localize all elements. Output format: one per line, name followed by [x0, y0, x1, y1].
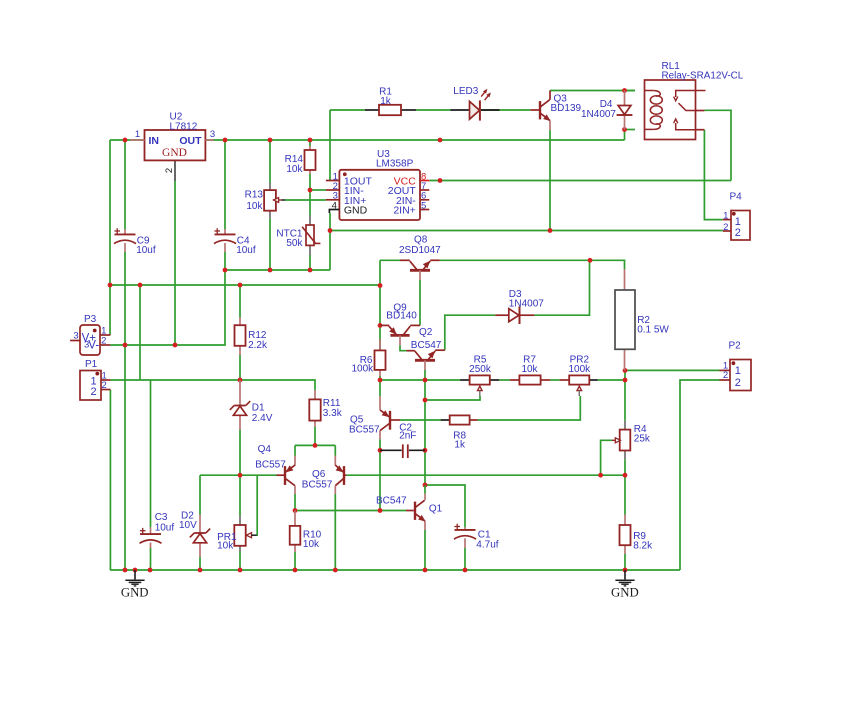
wire Q5 collector to C2 node [379, 439, 381, 450]
wire R14 top [309, 140, 311, 146]
node Q2 collector [423, 378, 428, 383]
wire sense line y270 [225, 269, 330, 271]
svg-text:Q8: Q8 [414, 234, 428, 245]
svg-text:10k: 10k [286, 164, 303, 175]
wire PR1 wiper link [256, 475, 258, 535]
wire Q1 collector link [425, 485, 465, 527]
wire long line U3 GND to P4 pin2 [330, 230, 723, 232]
node Q3 emitter line [548, 228, 553, 233]
capacitor C3 [140, 512, 175, 548]
svg-text:10k: 10k [303, 539, 320, 550]
node C4 bottom [223, 268, 228, 273]
wire R13 top [269, 140, 271, 183]
svg-text:10uf: 10uf [136, 245, 156, 256]
wire relay common to VCC line [704, 110, 731, 180]
svg-text:5: 5 [421, 200, 426, 211]
node gnd C3 [148, 568, 153, 573]
transistor Q3 BD139 [530, 91, 581, 131]
svg-text:R13: R13 [245, 190, 264, 201]
node gnd R10 [293, 568, 298, 573]
wire main line y380 left [380, 379, 460, 381]
node gnd Q1 [423, 568, 428, 573]
svg-text:10k: 10k [246, 201, 263, 212]
resistor R14 [285, 146, 316, 175]
svg-text:2IN+: 2IN+ [393, 205, 415, 217]
node R11 emitters [313, 443, 318, 448]
svg-text:BC557: BC557 [349, 425, 380, 436]
resistor R10 [290, 511, 322, 553]
svg-text:2: 2 [101, 336, 106, 347]
svg-text:50k: 50k [286, 238, 303, 249]
resistor R8 [441, 415, 478, 450]
zener diode D2 [179, 510, 210, 557]
wire D3 cathode to Q8 line [534, 260, 589, 315]
node NTC1 bottom [308, 268, 313, 273]
wire R9 bottom [624, 554, 626, 570]
svg-text:OUT: OUT [179, 135, 202, 147]
wire Q4 Q6 emitter rail [295, 444, 335, 446]
thermistor NTC1 [276, 216, 320, 256]
node Q8 base [378, 283, 383, 288]
resistor R7 [510, 354, 550, 384]
relay contact stub pin [696, 110, 705, 112]
node rail-C9 [123, 138, 128, 143]
node R2 bottom [623, 368, 628, 373]
svg-text:2: 2 [723, 370, 728, 381]
svg-text:GND: GND [162, 147, 187, 159]
svg-text:BC547: BC547 [376, 495, 407, 506]
svg-text:3: 3 [210, 129, 215, 140]
wire base line y285 [110, 284, 380, 286]
wire R4 wiper link [601, 440, 612, 475]
wire 1IN- to R14 node [310, 189, 326, 191]
node U2gnd-P3 [173, 343, 178, 348]
wire C4 bottom to GND-sense line [224, 252, 226, 270]
svg-text:3: 3 [73, 331, 78, 342]
svg-text:2: 2 [164, 168, 175, 173]
voltage regulator U2 [130, 112, 215, 174]
transistor Q2 BC547 [406, 327, 444, 370]
svg-text:2SD1047: 2SD1047 [399, 245, 441, 256]
node Q1 collector [423, 483, 428, 488]
wire R4 column top [624, 380, 626, 421]
svg-text:LM358P: LM358P [376, 159, 414, 170]
svg-text:25k: 25k [634, 434, 651, 445]
svg-text:1k: 1k [454, 440, 466, 451]
wire relay NO contact down to P4 pin1 [704, 130, 722, 220]
wire Q1 emitter to GND [424, 530, 426, 570]
wire C4 column to P3 pin2 line [110, 270, 225, 345]
svg-text:2.2k: 2.2k [248, 340, 268, 351]
wire R11 top from P1 line [240, 380, 315, 390]
wire zener D2 top [199, 475, 201, 514]
wire C4 column top [224, 140, 226, 229]
wire Q3 collector line y90.5 [550, 90, 635, 92]
node R4 top [623, 378, 628, 383]
node R13 bottom [268, 268, 273, 273]
wire Q4 collector to R10 [294, 494, 296, 511]
node R4-R9 [623, 473, 628, 478]
wire P3 pin1 riser [109, 140, 111, 335]
svg-text:P2: P2 [729, 341, 742, 352]
node R12-D1 [238, 378, 243, 383]
svg-text:100k: 100k [568, 364, 591, 375]
resistor PR1 trimmer [217, 516, 257, 552]
svg-text:2nF: 2nF [399, 431, 416, 442]
wire op-amp out column x330 [329, 110, 331, 181]
svg-text:IN: IN [149, 135, 160, 147]
svg-text:Q1: Q1 [429, 504, 443, 515]
svg-text:V-: V- [88, 339, 99, 351]
capacitor C9 [114, 228, 156, 256]
resistor R2 0.1 5W [615, 269, 669, 370]
resistor R11 [309, 390, 342, 427]
svg-text:1k: 1k [380, 96, 392, 107]
wire Q8 base col to Q9 [379, 286, 381, 326]
wire GND line bottom [110, 569, 680, 571]
capacitor C2 [380, 423, 425, 458]
node D4 anode [622, 88, 627, 93]
wire C1 bottom [464, 548, 466, 570]
svg-text:2: 2 [735, 227, 741, 239]
node gnd PR1 [238, 568, 243, 573]
wire PR1 top [239, 475, 241, 516]
wire R9 top [624, 475, 626, 514]
connector P3 [70, 314, 110, 355]
node R14-NTC1 [308, 188, 313, 193]
transistor Q8 2SD1047 [399, 234, 441, 280]
wire PR1 bottom [239, 552, 241, 571]
connector P1 [80, 359, 110, 400]
node left riser [108, 283, 113, 288]
node Q9-R6 [378, 323, 383, 328]
svg-text:Relay-SRA12V-CL: Relay-SRA12V-CL [662, 71, 744, 82]
transistor Q4 BC557 [255, 444, 295, 494]
node D4 cathode [622, 127, 627, 132]
svg-text:1N4007: 1N4007 [581, 109, 616, 120]
wire C9 column top [124, 140, 126, 229]
node R12 top [238, 283, 243, 288]
ground symbol right [611, 570, 639, 599]
wire P1 pin1 line [110, 379, 240, 381]
svg-text:250k: 250k [469, 364, 492, 375]
node rail-C4 [223, 138, 228, 143]
wire C9 column bottom [124, 252, 126, 570]
node gnd Q6 [333, 568, 338, 573]
node rail-R13 [268, 138, 273, 143]
wire Q9 node to R6 [379, 325, 381, 339]
svg-text:10k: 10k [217, 540, 234, 551]
resistor R9 [620, 515, 654, 555]
node Q4-R10 [293, 508, 298, 513]
wire P2 pin2 riser [680, 380, 720, 570]
svg-text:1: 1 [735, 216, 741, 228]
svg-text:BD140: BD140 [386, 310, 417, 321]
node R5 wiper [423, 398, 428, 403]
wire P1 pin2 drop [109, 390, 111, 571]
wire y475 line left [200, 474, 278, 476]
wire D3 line from Q2 emitter [445, 315, 496, 350]
node gnd C1 [463, 568, 468, 573]
wire R11 bottom [314, 427, 316, 445]
node D3-Q8 [588, 258, 593, 263]
svg-text:LED3: LED3 [453, 86, 478, 97]
wire R8 to PR2 wiper [478, 396, 581, 420]
svg-text:1N4007: 1N4007 [509, 299, 544, 310]
wire Q2 collector column [424, 370, 426, 485]
transistor Q1 BC547 [376, 485, 443, 530]
wire R5 wiper line y400 [425, 396, 480, 400]
svg-text:10uf: 10uf [236, 245, 256, 256]
wire D4 bottom link to coil [625, 129, 636, 131]
svg-text:1: 1 [135, 129, 140, 140]
wire R12 top [239, 285, 241, 318]
wire +12V rail top [110, 139, 625, 141]
wire zener D2 bottom [199, 557, 201, 570]
node Q1 base [378, 508, 383, 513]
wire 1IN+ to R13 wiper [285, 199, 326, 201]
connector P2 [720, 341, 752, 391]
svg-text:GND: GND [611, 585, 639, 599]
svg-text:10V: 10V [179, 520, 197, 531]
wire R6 top lead link [379, 339, 381, 350]
resistor R12 [235, 318, 269, 356]
svg-text:BC557: BC557 [255, 459, 286, 470]
wire Q3 emitter column x550 [549, 130, 551, 230]
svg-text:BD139: BD139 [551, 103, 582, 114]
wire R13 bottom [269, 218, 271, 270]
node R6 bottom [378, 378, 383, 383]
wire D4 top link [625, 90, 636, 92]
LED LED3 [450, 86, 499, 121]
transistor Q9 BD140 [380, 302, 420, 345]
wire NTC1 bottom [309, 255, 311, 270]
svg-text:0.1 5W: 0.1 5W [637, 325, 669, 336]
wire R10 bottom to GND [294, 552, 296, 570]
svg-text:P4: P4 [730, 191, 743, 202]
wire D1 bottom to y475 node [239, 430, 241, 475]
svg-text:BC547: BC547 [411, 340, 442, 351]
wire R12 bottom [239, 355, 241, 380]
node gnd D2 [198, 568, 203, 573]
diode D4 1N4007 [581, 91, 632, 130]
svg-text:GND: GND [121, 585, 149, 599]
wire R14 bottom to pin2 node [309, 174, 311, 190]
svg-text:4.7uf: 4.7uf [476, 539, 498, 550]
transistor Q6 BC557 [302, 445, 347, 494]
connector P4 [723, 191, 750, 240]
wire Q8 center to Q9 right leg [419, 280, 421, 325]
node rail-R14 [308, 138, 313, 143]
resistor R13 trimmer [245, 183, 285, 219]
relay RL1 [645, 61, 744, 140]
svg-text:Q2: Q2 [419, 327, 433, 338]
capacitor C1 [454, 524, 499, 551]
wire x140 drop [139, 285, 141, 380]
wire Q1 base line [295, 510, 406, 512]
op-amp U3 LM358P [326, 149, 429, 220]
node rail-VCC riser [438, 138, 443, 143]
svg-text:L7812: L7812 [170, 121, 198, 132]
wire U3 pin4 column x330 [329, 213, 331, 270]
wire R6 bottom to main line [379, 376, 381, 380]
node D1-PR1 [238, 473, 243, 478]
svg-text:GND: GND [344, 205, 368, 217]
resistor R1 [365, 86, 416, 115]
wire R1 LED row y110 [330, 109, 365, 111]
svg-text:C3: C3 [155, 512, 168, 523]
svg-text:10uf: 10uf [155, 523, 175, 534]
wire LED to Q3 base [416, 109, 450, 111]
svg-text:2.4V: 2.4V [252, 413, 273, 424]
wire Q5 base to R8 [400, 419, 441, 421]
svg-text:1: 1 [723, 211, 728, 222]
node gnd C9 [123, 568, 128, 573]
wire R4 bottom [624, 459, 626, 475]
wire C3 column bottom [150, 548, 152, 570]
wire Q8 left corner [380, 260, 400, 285]
resistor R4 trimmer 25k [612, 421, 651, 460]
wire VCC pin8 line [429, 180, 731, 182]
resistor R6 [352, 339, 386, 376]
svg-text:8.2k: 8.2k [633, 541, 653, 552]
node gnd symbol left [133, 568, 138, 573]
svg-text:P1: P1 [85, 359, 98, 370]
wire NTC1 top [309, 190, 311, 216]
node C9-P3 [123, 343, 128, 348]
svg-text:BC557: BC557 [302, 479, 333, 490]
node VCC pin8 [438, 178, 443, 183]
svg-text:2: 2 [91, 386, 97, 398]
node R4 wiper [598, 473, 603, 478]
svg-text:2: 2 [102, 380, 107, 391]
transistor Q5 BC557 [349, 396, 400, 439]
relay no-contact stub pin [696, 129, 705, 131]
wire C3 column top [150, 380, 152, 527]
svg-text:1: 1 [735, 365, 741, 377]
ground symbol left [121, 570, 149, 599]
wire P2 pin1 line [625, 369, 720, 371]
diode D3 1N4007 [495, 289, 544, 324]
wire U2 GND pin down [174, 161, 176, 182]
svg-text:2: 2 [723, 222, 728, 233]
node C2 left [378, 448, 383, 453]
svg-text:100k: 100k [352, 363, 375, 374]
svg-text:3: 3 [84, 340, 89, 351]
svg-text:2: 2 [735, 377, 741, 389]
wire Q8 emitter to R2 [440, 260, 625, 269]
wire rail jog to relay coil bottom [624, 130, 626, 141]
svg-text:3.3k: 3.3k [323, 408, 343, 419]
node gnd R9 [623, 568, 628, 573]
node C2 right [423, 448, 428, 453]
wire R7-PR2 link [550, 379, 560, 381]
svg-text:4: 4 [332, 200, 337, 211]
resistor R5 trimmer 250k [460, 354, 499, 396]
svg-text:P3: P3 [84, 314, 97, 325]
capacitor C4 [214, 228, 256, 256]
wire PR2 to R2 node [598, 379, 625, 381]
node x140 [138, 283, 143, 288]
resistor PR2 trimmer 100k [560, 354, 598, 396]
zener diode D1 [230, 380, 273, 430]
svg-text:Q4: Q4 [258, 444, 272, 455]
wire R5-R7 link [499, 379, 510, 381]
svg-text:10k: 10k [521, 364, 538, 375]
wire Q5 emitter column [379, 380, 381, 396]
wire Q6 collector to GND [334, 494, 336, 570]
wire Q9 center to Q2 left [400, 345, 406, 351]
wire R2 bottom link [624, 370, 626, 380]
wire Q6 base line y475 [346, 474, 625, 476]
wire C2 node down to Q1 base line [379, 450, 381, 510]
node U3 gnd [328, 228, 333, 233]
